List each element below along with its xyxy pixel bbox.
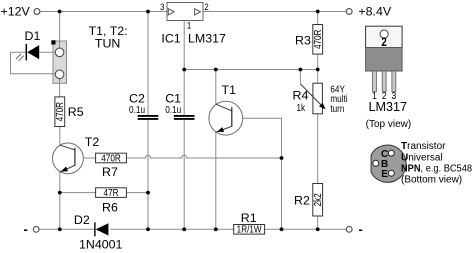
svg-text:R1: R1: [241, 211, 257, 225]
junction R6/T2 emitter: [58, 191, 62, 195]
wire bottom rail: -12V terminal to D2: [39, 228, 95, 230]
junction rail/C1: [182, 227, 186, 231]
wire inside connector top: [59, 41, 61, 48]
wire C2 column bottom: [147, 120, 149, 230]
junction +12V/connector: [58, 10, 62, 14]
wire T2 emitter column to bottom rail: [59, 171, 61, 229]
TO-92 body (bottom view): [371, 145, 406, 182]
svg-text:+8.4V: +8.4V: [358, 5, 391, 19]
svg-text:IC1: IC1: [161, 31, 180, 45]
svg-text:3: 3: [160, 1, 165, 12]
wire R3 bottom to ADJ / R4 top: [317, 54, 319, 83]
wire bottom rail: D2 to R1: [110, 228, 233, 230]
svg-text:470R: 470R: [54, 102, 65, 122]
terminal - input: [33, 226, 39, 232]
svg-text:2: 2: [204, 1, 209, 12]
trimmer R4 body: [313, 83, 323, 114]
svg-text:T2: T2: [85, 135, 100, 149]
connector pin bottom: [55, 70, 64, 79]
wire R2 bottom to rail: [317, 216, 319, 229]
junction rail/T1 emitter: [214, 227, 218, 231]
junction rail/T1 base column: [280, 227, 284, 231]
svg-text:T1: T1: [222, 83, 237, 97]
wire T2 base to R7: [75, 157, 96, 159]
connector pin top: [55, 48, 64, 57]
resistor R2 body: [313, 184, 323, 217]
junction rail/T2 emitter: [58, 227, 62, 231]
svg-text:E: E: [381, 169, 388, 180]
diode D1 (LED) cathode bar: [25, 44, 27, 61]
svg-text:Transistor: Transistor: [401, 141, 446, 152]
junction rail/R2: [316, 227, 320, 231]
svg-text:1N4001: 1N4001: [79, 237, 123, 251]
svg-text:47R: 47R: [104, 187, 119, 198]
TO-92 pin B: [373, 160, 379, 166]
svg-text:1k: 1k: [297, 102, 306, 113]
diode D1 triangle: [27, 45, 39, 59]
capacitor C1 plates: [174, 116, 195, 119]
svg-text:R6: R6: [102, 201, 118, 215]
LM317 package body: [366, 48, 403, 72]
svg-text:R7: R7: [102, 165, 118, 179]
junction R6/C2 column: [146, 191, 150, 195]
IC1 input buffer triangle: [168, 9, 174, 15]
svg-text:R2: R2: [294, 194, 310, 208]
svg-text:TUN: TUN: [95, 36, 120, 50]
transistor T2: [53, 143, 84, 174]
svg-text:R5: R5: [68, 105, 84, 119]
diode D2 cathode bar: [94, 222, 96, 236]
junction +12V/C2: [146, 10, 150, 14]
wire +12V top rail: [40, 11, 167, 13]
resistor R3 body: [313, 25, 323, 55]
svg-text:LM317: LM317: [369, 100, 408, 114]
LM317 package leg 1: [373, 71, 377, 92]
resistor R1 body: [234, 225, 265, 235]
wire IC1 out to +8.4V terminal: [203, 11, 346, 13]
wire R6 right to C2 column: [126, 192, 148, 194]
wire inside connector bottom: [59, 79, 61, 84]
wire +12V rail drop to connector: [59, 12, 61, 42]
svg-text:turn: turn: [330, 103, 344, 114]
wire R6 left to T2 emitter: [60, 192, 96, 194]
wire ADJ node horizontal: [184, 69, 318, 71]
junction ADJ/R4 top: [316, 68, 320, 72]
resistor R6 body: [96, 188, 127, 198]
junction ADJ/R4 wiper: [299, 68, 303, 72]
svg-text:(Top view): (Top view): [366, 119, 412, 130]
junction ADJ/T1 collector: [214, 68, 218, 72]
wire connector to R5: [59, 83, 61, 97]
svg-text:-: -: [24, 222, 28, 237]
op-amp IC1 LM317 body: [167, 3, 203, 21]
wire T1 collector drop: [215, 70, 217, 105]
wire C2 column top: [147, 12, 149, 116]
transistor T1: [209, 101, 243, 135]
svg-text:(Bottom view): (Bottom view): [401, 175, 462, 186]
svg-text:D1: D1: [25, 29, 41, 43]
terminal +8.4V output: [346, 9, 352, 15]
wire T1 base to node: [232, 118, 282, 229]
resistor R5 body: [55, 97, 65, 127]
wire R4 bottom to R2 top: [317, 114, 319, 184]
svg-text:-: -: [359, 222, 363, 237]
LM317 package tab: [366, 26, 403, 47]
connector K1 body: [53, 41, 67, 83]
IC1 output buffer triangle: [195, 9, 201, 15]
svg-text:2k2: 2k2: [312, 193, 323, 206]
wire D1 loop: [11, 52, 56, 74]
svg-text:+12V: +12V: [1, 4, 31, 18]
TO-92 pin C: [388, 150, 394, 156]
svg-text:0.1u: 0.1u: [165, 105, 181, 116]
D1 light marks: [16, 54, 24, 61]
svg-text:1R/1W: 1R/1W: [237, 224, 262, 235]
wire IC1 pin1 / C1 column: [183, 21, 185, 116]
wire R3 top: [317, 12, 319, 25]
junction R7/T1 base column: [280, 156, 284, 160]
wire C1 bottom to rail: [183, 120, 185, 230]
connector pin1 marker: [51, 40, 55, 44]
trimmer R4 wiper arrow: [300, 84, 322, 106]
junction +8.4V/R3: [316, 10, 320, 14]
capacitor C2 plates: [138, 116, 159, 119]
svg-text:LM317: LM317: [188, 31, 226, 45]
LM317 package hole: [380, 30, 388, 38]
wire D1 anode to connector: [39, 51, 55, 53]
svg-text:R3: R3: [295, 33, 311, 47]
svg-text:1: 1: [187, 20, 192, 31]
svg-text:Universal: Universal: [401, 152, 443, 163]
wire T1 emitter to rail: [215, 132, 217, 229]
TO-92 pin E: [388, 170, 394, 176]
svg-text:470R: 470R: [101, 153, 121, 164]
LM317 package leg 3: [392, 71, 396, 92]
terminal +12V input: [34, 9, 40, 15]
resistor R7 body: [96, 153, 127, 163]
wire R7 to T1 base column, hops over C2 and C1: [126, 155, 281, 158]
junction ADJ/pin1: [182, 68, 186, 72]
wire R4 wiper tap stub: [299, 70, 301, 85]
wire R5 to T2 collector: [59, 127, 61, 147]
svg-text:D2: D2: [74, 213, 90, 227]
diode D2 triangle: [96, 223, 109, 235]
wire bottom rail: R1 to - output terminal: [265, 228, 347, 230]
svg-text:R4: R4: [293, 89, 309, 103]
svg-text:0.1u: 0.1u: [129, 105, 145, 116]
svg-text:NPN, e.g. BC548: NPN, e.g. BC548: [401, 164, 472, 175]
terminal - output: [346, 226, 352, 232]
LM317 package leg 2: [382, 71, 386, 92]
junction rail/C2: [146, 227, 150, 231]
svg-text:470R: 470R: [312, 29, 323, 49]
